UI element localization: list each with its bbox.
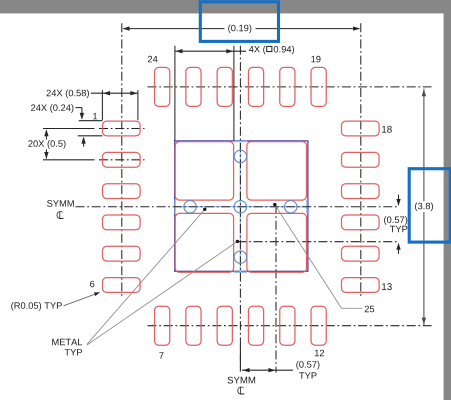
- via circle center: [234, 201, 246, 213]
- pin 6 label: [90, 281, 94, 288]
- left pad column pins 1-6: [103, 121, 141, 136]
- horizontal SYMM centerline: [76, 206, 399, 208]
- top gray bar: [0, 0, 451, 13]
- label (0.19): [228, 24, 251, 33]
- right pad column centerline: [360, 23, 362, 298]
- metal reference dot upper-left: [203, 208, 206, 211]
- dim 24X (0.24) pad-bottom extension line: [78, 135, 103, 137]
- via-offset vertical centerline x=276: [275, 205, 277, 373]
- label 24X (0.58): [47, 89, 89, 98]
- label (0.57) TYP right: [384, 216, 407, 225]
- dim (3.8) dimension line: [423, 89, 425, 202]
- via circle bottom: [234, 251, 246, 263]
- label 24X (0.24): [31, 104, 73, 113]
- label 20X (0.5): [28, 140, 65, 149]
- dim 20X (0.5) arrows: [45, 131, 47, 140]
- label 4X (square 0.94): [249, 46, 266, 55]
- via-offset horizontal centerline y=242: [237, 241, 398, 243]
- label (0.57) TYP bottom: [296, 361, 319, 370]
- left pad column centerline: [121, 23, 123, 298]
- thermal quadrant upper-left: [175, 142, 233, 201]
- dim 24X (0.24) leader and arrows: [76, 107, 82, 109]
- dim (0.19) dimension line: [123, 28, 224, 30]
- blue highlight box top (0.19): [200, 2, 278, 42]
- thermal pad edge light-blue gap segments: [174, 200, 176, 214]
- label 25: [365, 306, 374, 313]
- bottom pad row pins 7-12: [155, 306, 170, 345]
- metal reference dot right: [273, 203, 276, 206]
- pin 13 label: [382, 283, 392, 290]
- centerline symbol left: [57, 211, 64, 218]
- left pads 1-2 extended centerlines: [43, 128, 95, 130]
- vertical SYMM centerline: [239, 46, 241, 372]
- bottom pad row centerline: [148, 325, 432, 327]
- SYMM label left: [47, 200, 74, 207]
- metal reference dot lower: [236, 240, 239, 243]
- thermal quadrant lower-left: [175, 213, 233, 272]
- label METAL TYP: [52, 339, 82, 345]
- thermal quadrant lower-right: [247, 213, 307, 272]
- thermal pad outer outline: [175, 141, 308, 271]
- leader 25: [275, 205, 363, 309]
- via circle top: [234, 150, 246, 162]
- pin 7 label: [159, 352, 163, 358]
- leader (R0.05) TYP: [64, 293, 98, 305]
- top pad row pins 19-24: [155, 67, 170, 106]
- top pad row centerline: [148, 86, 432, 88]
- label (R0.05) TYP: [11, 302, 62, 311]
- dim (0.57) right arrows: [398, 195, 400, 203]
- dim 4X 0.94 dimension line: [175, 50, 246, 52]
- dim 4X 0.94 extension lines: [174, 46, 176, 141]
- via circle right: [285, 201, 297, 213]
- via circle left: [184, 201, 196, 213]
- pin 18 label: [382, 126, 392, 133]
- thermal pad light-blue cross centerlines: [175, 206, 308, 208]
- pin 24 label: [148, 56, 158, 62]
- dim 24X (0.58) dimension line: [91, 92, 138, 94]
- thermal quadrant upper-right: [247, 142, 307, 201]
- dim 24X (0.24) pad-top extension line: [79, 120, 103, 122]
- label (3.8): [415, 202, 433, 211]
- leader METAL to upper-left dot: [87, 209, 205, 344]
- pin 19 label: [311, 56, 320, 63]
- dim 24X (0.58) extension lines: [101, 90, 103, 120]
- centerline symbol bottom: [238, 387, 245, 394]
- dim (0.57) bottom dimension line: [239, 346, 241, 372]
- right gray bar: [444, 0, 451, 400]
- pin 12 label: [315, 350, 324, 356]
- right pad column pins 13-18: [342, 121, 380, 136]
- blue highlight box right (3.8): [409, 169, 450, 242]
- pin 1 label: [93, 113, 97, 119]
- SYMM label bottom: [228, 377, 256, 384]
- leader METAL to lower dot: [87, 241, 237, 345]
